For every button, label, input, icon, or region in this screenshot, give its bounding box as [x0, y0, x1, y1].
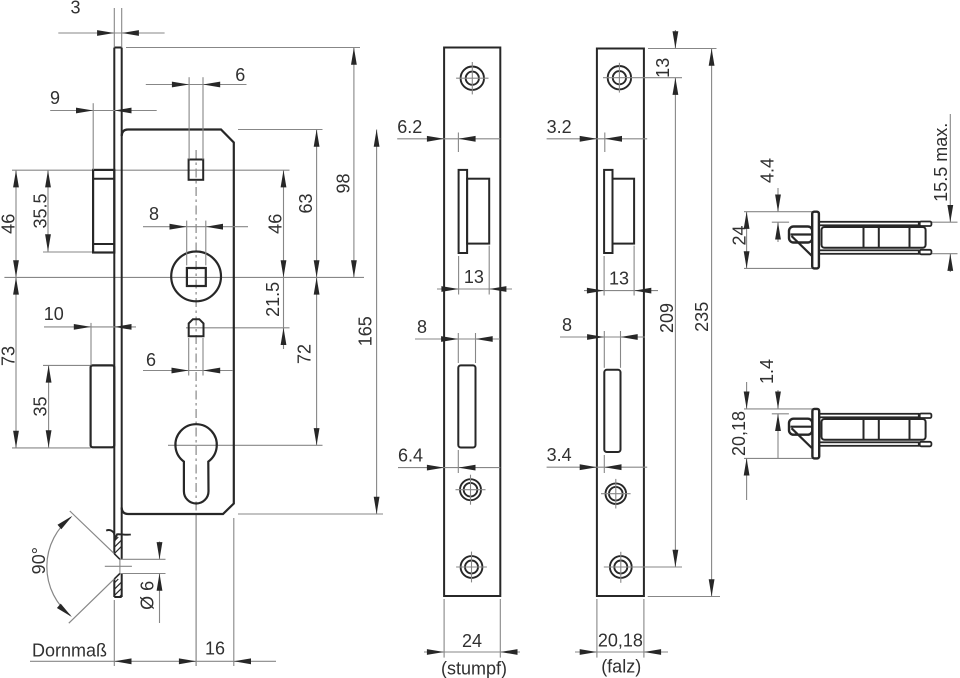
section deadbolt [819, 414, 919, 418]
svg-text:63: 63 [296, 193, 316, 213]
stumpf hole mid [460, 479, 481, 500]
stumpf hole bottom [461, 556, 483, 578]
svg-text:8: 8 [562, 315, 572, 335]
latch bolt [93, 170, 114, 253]
svg-text:(falz): (falz) [601, 657, 641, 677]
svg-text:24: 24 [462, 631, 482, 651]
svg-text:21.5: 21.5 [263, 282, 283, 317]
stumpf plate [444, 48, 500, 597]
svg-text:98: 98 [333, 173, 353, 193]
extension line falz plate bottom [648, 596, 720, 598]
extension line section1 case depth top [932, 221, 958, 223]
falz hole mid [606, 483, 627, 504]
dim 24 section [746, 212, 748, 269]
svg-text:8: 8 [417, 317, 427, 337]
svg-text:4.4: 4.4 [758, 158, 778, 183]
dim 8 stumpf [415, 338, 500, 340]
dim 1.4 [777, 390, 779, 409]
dim 209 [674, 78, 676, 567]
extension line strip top [126, 47, 360, 49]
cylinder hole [175, 424, 216, 503]
extension line section2 case top [772, 413, 789, 415]
dim 35.5 [47, 170, 49, 251]
break line [106, 530, 131, 539]
dim 98 [353, 48, 355, 278]
svg-text:72: 72 [295, 344, 315, 364]
deadbolt [91, 365, 115, 447]
svg-text:16: 16 [205, 639, 225, 659]
svg-text:35.5: 35.5 [31, 193, 51, 228]
dim Dornmass 16 [30, 660, 276, 662]
dim 24 [424, 651, 520, 653]
dim 4.4 [777, 188, 779, 212]
lock body [122, 130, 234, 515]
extension line deadbolt top [43, 364, 91, 366]
svg-text:13: 13 [464, 267, 484, 287]
stumpf deadbolt cutout [458, 365, 475, 447]
svg-text:235: 235 [692, 302, 712, 332]
extension line cylinder axis [168, 444, 323, 446]
dim 3.2 [547, 138, 648, 140]
dim 63 [316, 130, 318, 278]
svg-text:(stumpf): (stumpf) [441, 659, 507, 678]
dim 35 [48, 365, 50, 447]
dim 13 top [674, 30, 676, 49]
svg-text:20,18: 20,18 [598, 630, 643, 650]
dim 165 [376, 130, 378, 515]
svg-text:Ø 6: Ø 6 [138, 581, 158, 610]
svg-text:46: 46 [0, 214, 19, 234]
dim 6 tab [143, 370, 233, 372]
dim 8 follower [143, 226, 248, 228]
svg-text:9: 9 [50, 88, 60, 108]
extension line faceplate front [113, 600, 115, 666]
dim 46 right [283, 170, 285, 349]
dim 46 left [15, 170, 17, 277]
svg-text:1.4: 1.4 [757, 359, 777, 384]
svg-text:6.2: 6.2 [397, 117, 422, 137]
svg-text:13: 13 [609, 269, 629, 289]
centerline [195, 150, 197, 516]
falz hole bottom [610, 556, 632, 578]
dim 6.2 [397, 138, 500, 140]
dim 235 [711, 49, 713, 597]
extension line section1 case depth bottom [932, 253, 958, 255]
falz plate [597, 49, 644, 597]
svg-text:Dornmaß: Dornmaß [32, 640, 107, 660]
svg-text:3: 3 [70, 0, 80, 18]
follower square [189, 160, 204, 180]
stumpf latch cutout [459, 170, 468, 253]
dim dia6 [159, 542, 161, 560]
extension line follower axis [12, 169, 290, 171]
extension line section2 plate bottom [744, 457, 812, 459]
falz deadbolt cutout [604, 370, 620, 452]
faceplate bar top [812, 212, 819, 269]
stumpf hole top [461, 67, 484, 90]
extension line tab axis [186, 327, 290, 329]
svg-text:3.2: 3.2 [547, 117, 572, 137]
dim 20,18 section [746, 382, 748, 409]
extension line section1 plate bottom [744, 267, 812, 269]
svg-text:24: 24 [730, 225, 750, 245]
dim 20,18 [575, 651, 668, 653]
countersink [114, 554, 120, 560]
dim 3 [58, 32, 164, 34]
dim 13 falz [584, 290, 658, 292]
svg-text:35: 35 [31, 396, 51, 416]
dim 21.5 [281, 328, 287, 345]
dim 6.4 [398, 467, 500, 469]
extension line section1 plate top [744, 211, 812, 213]
dim 8 falz [560, 336, 645, 338]
section latch [819, 222, 919, 226]
svg-text:209: 209 [657, 303, 677, 333]
hatching [114, 537, 118, 541]
tab [189, 319, 204, 336]
dim 90deg [70, 511, 114, 553]
svg-text:6: 6 [146, 350, 156, 370]
dim 3.4 [547, 466, 648, 468]
dim 9 [50, 110, 157, 112]
svg-text:20,18: 20,18 [729, 411, 749, 456]
extension line section2 plate top [744, 408, 812, 410]
svg-text:73: 73 [0, 346, 19, 366]
extension line main axis [4, 276, 364, 278]
svg-text:3.4: 3.4 [547, 445, 572, 465]
hub [171, 252, 221, 302]
dim 73 [15, 277, 17, 448]
dim 15.5max [949, 114, 951, 222]
dim 10 [44, 326, 136, 328]
extension line deadbolt bottom [12, 447, 91, 449]
faceplate [114, 47, 121, 49]
svg-text:8: 8 [149, 204, 159, 224]
svg-text:46: 46 [266, 214, 286, 234]
extension line body bottom [238, 513, 383, 515]
extension line section1 case top [772, 221, 789, 223]
falz hole top [608, 66, 631, 89]
falz latch cutout [604, 170, 612, 253]
svg-text:6.4: 6.4 [398, 446, 423, 466]
svg-text:165: 165 [356, 316, 376, 346]
dim 6 top [146, 84, 247, 86]
dim 72 [316, 277, 318, 445]
svg-text:13: 13 [653, 58, 673, 78]
extension line falz plate top [648, 48, 717, 50]
svg-text:15.5 max.: 15.5 max. [931, 123, 951, 202]
dim 13 stumpf [437, 288, 512, 290]
extension line latch bottom [43, 251, 93, 253]
svg-text:6: 6 [235, 65, 245, 85]
svg-text:90°: 90° [29, 547, 49, 574]
extension line body right [233, 518, 235, 666]
faceplate bar bottom [812, 409, 819, 459]
extension line body top [238, 129, 323, 131]
svg-text:10: 10 [44, 304, 64, 324]
